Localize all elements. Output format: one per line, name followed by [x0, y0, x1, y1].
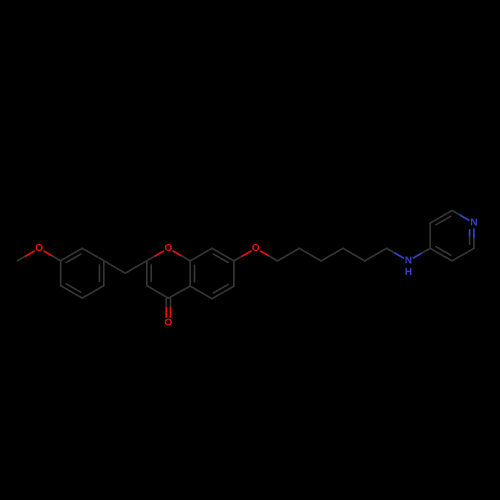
bond pyridine C6-C5 [452, 248, 474, 261]
double bond ringA C5=C6 [61, 286, 82, 299]
double bond C8=C7 [212, 248, 234, 261]
bond CH3-O(methoxy) [18, 256, 26, 261]
bond C7-C6 [233, 261, 235, 286]
bond C5-C4a [190, 286, 212, 299]
bond ringA C2-C3 [82, 248, 104, 260]
double bond pyridine C3=C2 [430, 211, 452, 224]
bond chain C6-NH [387, 248, 395, 253]
svg-text:N: N [470, 218, 477, 229]
bond ringA C4-C5 [82, 286, 104, 299]
bond C7-O(ether) [234, 256, 242, 261]
bond O1-C8a [173, 251, 181, 256]
svg-text:O: O [252, 243, 260, 254]
double bond C8a=C4a [189, 261, 191, 286]
double bond pyridine C5=C4 [430, 248, 452, 261]
bond O(methoxy)-C(ringA) [44, 251, 52, 256]
bond pyridine C2-N1 [452, 211, 460, 216]
svg-text:O: O [35, 243, 43, 254]
bond ringA C6-C1 [60, 261, 62, 286]
bond C2-O1(ring O) [147, 256, 155, 261]
bond chain C3-C4 [321, 248, 343, 261]
double bond ringA C1=C2 [61, 248, 82, 260]
bond O(ether)-CH2a [261, 251, 269, 256]
double bond C2=C3 [146, 261, 148, 286]
bond pyridine C4-C3 [429, 223, 431, 248]
bond chain C1-C2 [278, 248, 300, 261]
double bond C6=C5 [212, 286, 234, 299]
bond CH2-C2(pyranone) [125, 261, 147, 274]
svg-text:O: O [164, 243, 172, 254]
bond chain C4-C5 [343, 248, 365, 261]
bond NH-pyridine C4 [413, 253, 421, 258]
bond chain C5-C6 [365, 248, 387, 261]
bond chain C2-C3 [299, 248, 321, 261]
double bond ringA C3=C4 [103, 261, 105, 286]
bond C3-C4 [147, 286, 169, 299]
svg-text:H: H [405, 267, 412, 278]
svg-text:O: O [164, 318, 172, 329]
bond C8a-C8 [190, 248, 212, 261]
double bond pyridine N1=C6 [473, 229, 475, 239]
bond C4-C4a [168, 286, 190, 298]
double bond C4=O ketone [165, 298, 167, 308]
bond ringA-CH2 [104, 261, 126, 274]
svg-text:N: N [405, 255, 412, 266]
